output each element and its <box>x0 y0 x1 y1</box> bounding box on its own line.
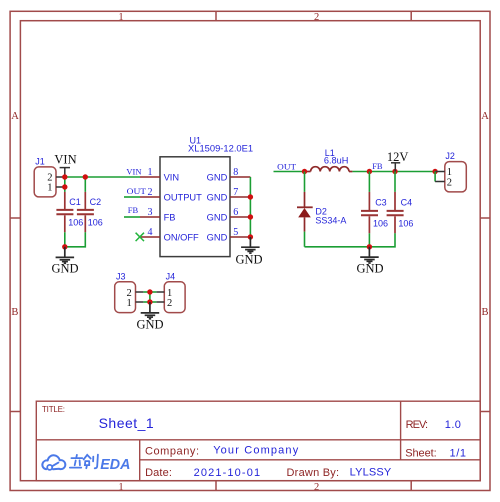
svg-text:LYLSSY: LYLSSY <box>350 467 392 479</box>
capacitor C1 <box>56 192 73 232</box>
wire GND bus vertical right of U1 <box>249 177 251 237</box>
junction dot pin5 <box>248 234 253 239</box>
svg-text:1: 1 <box>47 183 52 194</box>
svg-text:TITLE:: TITLE: <box>42 405 65 414</box>
wire OUT stub to D2 node <box>274 171 305 173</box>
diode D2 SS34-A <box>297 172 313 247</box>
U1 pin 6 line <box>230 216 250 218</box>
svg-text:OUTPUT: OUTPUT <box>164 193 203 203</box>
ground flag J3J4 <box>141 302 160 319</box>
svg-text:Company:: Company: <box>145 445 199 457</box>
svg-text:106: 106 <box>68 218 83 228</box>
ground flag below C1 <box>56 247 75 263</box>
svg-text:106: 106 <box>398 218 413 228</box>
junction dot J3J4 bottom <box>147 299 152 304</box>
svg-text:C2: C2 <box>90 197 102 207</box>
svg-text:FB: FB <box>164 213 176 223</box>
svg-text:GND: GND <box>207 233 228 243</box>
junction dot pin7 <box>248 194 253 199</box>
svg-text:6: 6 <box>233 207 238 218</box>
svg-text:GND: GND <box>356 262 383 276</box>
svg-text:1: 1 <box>148 167 153 178</box>
svg-text:OUT: OUT <box>127 186 147 196</box>
svg-text:Sheet:: Sheet: <box>405 447 437 459</box>
wire L1 output rail <box>352 171 435 173</box>
J1 pin 1 stub <box>56 186 64 188</box>
svg-text:2: 2 <box>148 187 153 198</box>
svg-text:Sheet_1: Sheet_1 <box>99 415 154 431</box>
wire vertical C2 branch <box>84 177 86 192</box>
svg-text:GND: GND <box>235 252 262 266</box>
svg-text:J4: J4 <box>166 271 176 281</box>
svg-text:106: 106 <box>373 218 388 228</box>
J3 pin 1 stub <box>136 301 144 303</box>
svg-text:5: 5 <box>233 227 238 238</box>
connector J4 body <box>164 282 185 313</box>
svg-text:REV:: REV: <box>406 419 428 431</box>
svg-text:Date:: Date: <box>145 467 172 479</box>
title block v-divider right of logo cell <box>139 440 141 481</box>
J3 pin 2 stub <box>136 291 144 293</box>
logo text 立创 (drawn strokes) <box>70 455 98 469</box>
svg-text:4: 4 <box>148 227 153 238</box>
U1 pin 2 line <box>140 196 160 198</box>
svg-text:VIN: VIN <box>164 173 180 183</box>
svg-text:SS34-A: SS34-A <box>315 216 346 226</box>
title block h-divider under company row <box>140 459 481 461</box>
op IC U1 body <box>160 157 230 257</box>
inductor L1 <box>305 167 353 172</box>
svg-text:A: A <box>11 111 19 122</box>
wire vertical between junctions <box>149 292 151 302</box>
svg-text:EDA: EDA <box>100 456 130 473</box>
svg-text:GND: GND <box>207 193 228 203</box>
svg-text:GND: GND <box>51 261 78 275</box>
junction dot J1 pin1 <box>62 184 67 189</box>
J4 pin 1 stub <box>156 291 164 293</box>
svg-text:2: 2 <box>167 298 172 309</box>
svg-text:J1: J1 <box>35 156 45 166</box>
junction dot switch node <box>302 169 307 174</box>
capacitor C4 <box>369 172 403 247</box>
wire C1 bottom <box>64 232 66 247</box>
U1 pin 3 line <box>140 216 160 218</box>
svg-text:2021-10-01: 2021-10-01 <box>194 467 261 479</box>
svg-text:Your Company: Your Company <box>213 445 299 457</box>
svg-text:B: B <box>11 307 18 318</box>
svg-text:2: 2 <box>314 12 319 23</box>
power flag 12V <box>387 150 409 171</box>
svg-text:8: 8 <box>233 167 238 178</box>
svg-text:3: 3 <box>148 207 153 218</box>
ground flag below U1 pins <box>241 237 260 253</box>
junction dot J3J4 top <box>147 289 152 294</box>
wire J3-J4 top <box>143 291 156 293</box>
svg-text:1: 1 <box>118 482 123 493</box>
junction dot C1 gnd <box>62 244 67 249</box>
junction dot C2 top <box>83 174 88 179</box>
svg-text:XL1509-12.0E1: XL1509-12.0E1 <box>188 144 253 154</box>
svg-text:106: 106 <box>88 218 103 228</box>
title block outline <box>36 401 480 481</box>
svg-text:C4: C4 <box>401 197 413 207</box>
svg-text:2: 2 <box>447 177 452 188</box>
J1 pin 2 stub <box>56 176 64 178</box>
junction dot FB node <box>367 169 372 174</box>
svg-text:1.0: 1.0 <box>445 419 461 431</box>
svg-text:VIN: VIN <box>54 153 76 167</box>
svg-text:VIN: VIN <box>126 166 141 176</box>
svg-text:GND: GND <box>136 317 163 331</box>
svg-text:FB: FB <box>128 205 139 215</box>
U1 pin 5 line <box>230 236 250 238</box>
svg-text:FB: FB <box>372 161 383 171</box>
capacitor C3 <box>361 172 378 247</box>
wire VIN horizontal J1 to U1 <box>64 176 140 178</box>
no-connect X on pin 4 <box>136 233 144 241</box>
svg-text:C1: C1 <box>69 197 81 207</box>
U1 pin 4 line <box>140 236 160 238</box>
svg-text:GND: GND <box>207 173 228 183</box>
connector J1 body <box>34 167 56 197</box>
svg-text:J3: J3 <box>116 271 126 281</box>
wire C2 bottom elbow <box>65 232 86 247</box>
connector J2 body <box>445 162 467 192</box>
logo LCEDA cloud icon <box>42 455 65 470</box>
junction dot J2 node <box>432 169 437 174</box>
J4 pin 2 stub <box>156 301 164 303</box>
wire vertical J1 pins to C1 <box>64 177 66 192</box>
svg-text:1: 1 <box>126 298 131 309</box>
wire stub OUT <box>124 196 140 198</box>
svg-text:J2: J2 <box>445 151 455 161</box>
power flag VIN <box>54 153 76 177</box>
wire J2 pin2 elbow <box>434 172 436 182</box>
svg-text:6.8uH: 6.8uH <box>324 155 349 165</box>
ground flag output <box>360 247 379 263</box>
svg-text:B: B <box>481 307 488 318</box>
svg-text:C3: C3 <box>375 197 387 207</box>
wire J3-J4 bottom <box>143 301 156 303</box>
svg-text:OUT: OUT <box>277 161 297 171</box>
U1 pin 7 line <box>230 196 250 198</box>
junction dot J1-VIN <box>62 174 67 179</box>
title block v-divider left of REV cell <box>400 401 402 460</box>
junction dot output gnd <box>367 244 372 249</box>
title block h-divider under title row <box>36 439 480 441</box>
capacitor C2 <box>77 192 94 232</box>
svg-text:7: 7 <box>233 187 238 198</box>
svg-text:ON/OFF: ON/OFF <box>164 233 199 243</box>
U1 pin 8 line <box>230 176 250 178</box>
svg-text:1: 1 <box>118 12 123 23</box>
svg-text:GND: GND <box>207 213 228 223</box>
J2 pin 1 stub <box>435 171 445 173</box>
junction dot pin6 <box>248 214 253 219</box>
U1 pin 1 line <box>140 176 160 178</box>
svg-text:Drawn By:: Drawn By: <box>287 467 340 479</box>
J2 pin 2 stub <box>435 181 445 183</box>
junction dot 12V/C4 node <box>392 169 397 174</box>
svg-text:A: A <box>481 111 489 122</box>
wire bottom rail D2 to C3 <box>305 246 370 248</box>
wire stub FB <box>124 216 140 218</box>
svg-text:2: 2 <box>314 482 319 493</box>
svg-text:1/1: 1/1 <box>450 447 467 459</box>
connector J3 body <box>115 282 136 313</box>
